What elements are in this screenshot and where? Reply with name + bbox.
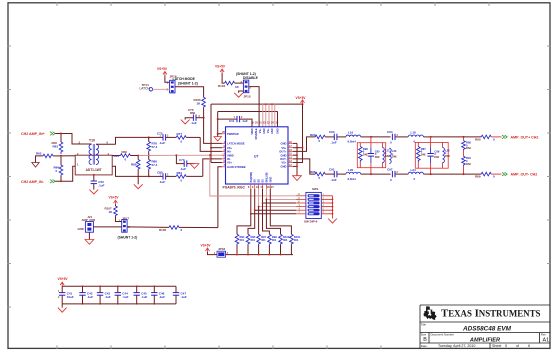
svg-text:C97: C97: [387, 167, 393, 171]
svg-text:LATCH MODE: LATCH MODE: [173, 77, 196, 81]
pin stubs right: [288, 143, 293, 166]
resistor R62: [36, 152, 62, 163]
capacitor C43: [97, 286, 111, 304]
inductor L18: [408, 131, 430, 144]
wire xfmr center tap: [112, 155, 120, 157]
svg-text:DNI: DNI: [385, 154, 390, 158]
svg-text:R93: R93: [310, 133, 316, 137]
svg-text:Document Number: Document Number: [431, 332, 455, 336]
jumper JP17: [119, 216, 131, 232]
resistor R104: [218, 73, 243, 89]
title block: [420, 305, 550, 348]
capacitor C45: [134, 286, 148, 304]
ground (JP15): [234, 93, 243, 97]
capacitor C95 DNI: [368, 153, 374, 155]
junctions VS+ rail: [265, 103, 267, 105]
junction PWRPAD: [217, 133, 219, 135]
ground (C77): [190, 164, 199, 169]
svg-text:GND: GND: [78, 227, 84, 231]
svg-text:301: 301: [283, 238, 288, 242]
wire AMP_IN-: [55, 166, 75, 181]
svg-text:C91: C91: [329, 167, 335, 171]
svg-text:301: 301: [294, 238, 299, 242]
node CH2_AMP_IN-: [21, 180, 55, 185]
junction sec mid: [148, 155, 150, 157]
power VS+5V (decoupling): [58, 277, 69, 286]
resistor R106: [194, 97, 206, 117]
capacitor C80 (bottom rail): [149, 171, 169, 184]
wire bottom rail to IN-: [203, 159, 222, 177]
resistor R86 to gnd: [131, 156, 140, 185]
svg-text:6.8nH: 6.8nH: [348, 177, 356, 181]
svg-text:301: 301: [272, 238, 277, 242]
junction out+ term: [463, 136, 465, 138]
wire xfmr sec top: [116, 137, 149, 144]
junction mid rail: [137, 155, 139, 157]
svg-text:GND: GND: [263, 128, 266, 134]
capacitor C75 DNI to gnd: [185, 108, 204, 125]
resistor R98 DNI: [359, 147, 363, 163]
svg-text:VS+5V: VS+5V: [58, 277, 69, 281]
wire decoupling bottom rail: [62, 303, 176, 305]
latch/disable jumpers: [140, 65, 307, 163]
junction out- filter2: [430, 173, 432, 175]
svg-text:B4(MSB): B4(MSB): [250, 172, 253, 183]
capacitor C98 DNI: [427, 153, 433, 155]
power VS+5V (cm jumper): [109, 196, 120, 205]
wire gain bit spare: [270, 189, 291, 234]
svg-text:10uF: 10uF: [67, 295, 74, 299]
wire out+ to R90: [464, 136, 482, 138]
capacitor C46: [151, 286, 165, 304]
resistor R92 term upper: [462, 137, 472, 156]
svg-text:DNI: DNI: [466, 162, 471, 166]
svg-text:6: 6: [528, 344, 530, 348]
testpoint TP14 LATCH: [140, 83, 170, 91]
capacitor C77 to gnd: [176, 155, 194, 171]
svg-text:LATCH: LATCH: [140, 87, 151, 91]
transformer T10: [75, 139, 115, 175]
svg-text:VS+5V: VS+5V: [109, 196, 120, 200]
svg-text:Tuesday, April 27, 2010: Tuesday, April 27, 2010: [438, 344, 475, 348]
svg-text:PGA870_RGC: PGA870_RGC: [223, 185, 246, 189]
ground (J21): [85, 240, 94, 245]
svg-text:AMP_OUT- CH2: AMP_OUT- CH2: [511, 173, 538, 177]
svg-text:VS+5V: VS+5V: [296, 96, 307, 100]
junction IN-: [60, 180, 62, 182]
svg-text:.1uF: .1uF: [159, 295, 165, 299]
svg-text:R77: R77: [177, 132, 183, 136]
resistor R63 (DNI): [52, 134, 63, 155]
ground (R86): [134, 184, 143, 188]
svg-text:R89: R89: [475, 175, 481, 179]
node AMP_OUT-: [502, 172, 537, 176]
capacitor C11: [218, 116, 252, 127]
ic section: [78, 104, 316, 244]
svg-text:VMID: VMID: [251, 128, 254, 134]
resistor R93 (out+ series): [310, 133, 334, 143]
svg-text:AMPLIFIER: AMPLIFIER: [469, 337, 500, 343]
svg-text:L16: L16: [348, 131, 354, 135]
svg-text:DNI: DNI: [434, 155, 439, 159]
svg-text:GND: GND: [277, 128, 280, 134]
svg-text:T10: T10: [89, 139, 95, 143]
wire out- to R89: [464, 173, 482, 175]
pin numbers left: [222, 131, 225, 167]
DNI shunt network 2: [415, 137, 450, 174]
ground (SW1): [328, 219, 337, 224]
svg-text:5: 5: [505, 344, 507, 348]
ground (PWRPAD): [214, 134, 222, 141]
resistor R64 (mid rail): [114, 150, 139, 162]
wire gain bit B1: [262, 189, 296, 234]
ground (xfmr center tap): [89, 190, 98, 194]
wire rail B right drop: [277, 112, 279, 127]
svg-text:.1uF: .1uF: [242, 119, 248, 123]
switch SW1: [296, 187, 325, 224]
junction out+ filter1: [370, 136, 372, 138]
junction rail B / C11: [217, 118, 219, 120]
capacitor C94: [387, 130, 408, 144]
svg-text:C77: C77: [179, 158, 185, 162]
input section: [21, 132, 226, 194]
svg-text:Rev: Rev: [541, 332, 547, 336]
svg-text:R84: R84: [177, 171, 183, 175]
svg-text:6.8nH: 6.8nH: [348, 140, 356, 144]
capacitor C41: [58, 286, 74, 304]
svg-text:VS+: VS+: [227, 146, 233, 150]
wire divider to xfmr pin2: [61, 155, 75, 157]
svg-text:VS+5V: VS+5V: [215, 65, 226, 69]
svg-text:.1uF: .1uF: [98, 184, 104, 188]
wire VS+ to pin6: [211, 162, 222, 164]
svg-text:GND: GND: [281, 164, 287, 168]
svg-text:U7: U7: [254, 155, 258, 159]
op-amp U7 PGA870: [222, 127, 293, 190]
inductor L23 DNI (left of net2): [389, 148, 397, 163]
wires VS+ rail to IC top pins: [263, 104, 275, 127]
capacitor C47: [173, 286, 187, 304]
svg-text:DNI: DNI: [363, 152, 368, 156]
power VS+5V (rail): [296, 96, 307, 105]
wire rail B left drop / PWRPAD feed: [218, 112, 222, 134]
svg-text:.1uF: .1uF: [87, 295, 93, 299]
wire xfmr sec bottom: [112, 166, 149, 176]
ground (IC right): [293, 176, 302, 181]
svg-text:R96: R96: [310, 170, 316, 174]
svg-text:IN-: IN-: [227, 157, 231, 161]
svg-text:301: 301: [240, 238, 245, 242]
connector J21 AMP_CM2: [78, 215, 122, 240]
wire GND right: [293, 143, 298, 175]
svg-text:DNI: DNI: [466, 146, 471, 150]
svg-text:301: 301: [261, 238, 266, 242]
svg-text:R105: R105: [159, 228, 167, 232]
jumper JP18: [214, 247, 229, 257]
resistor R77 (top rail): [166, 132, 201, 143]
output section: [310, 130, 538, 182]
wire OUT-: [293, 159, 315, 174]
svg-text:DNI: DNI: [122, 150, 127, 154]
svg-text:57.4: 57.4: [152, 163, 158, 167]
wire OUT+: [293, 137, 315, 152]
svg-text:TEXAS INSTRUMENTS: TEXAS INSTRUMENTS: [441, 307, 541, 319]
svg-text:DNI: DNI: [375, 155, 380, 159]
svg-text:VS+: VS+: [259, 128, 262, 133]
TI logo: [424, 306, 437, 320]
pin stubs bottom: [251, 184, 270, 189]
ground (decoupling): [58, 304, 67, 312]
resistor R105: [127, 226, 218, 232]
wire VMID rail: [176, 154, 225, 156]
svg-text:JP18: JP18: [218, 247, 225, 251]
power VS+5V (jp18): [201, 244, 218, 255]
pin stubs left: [222, 134, 226, 167]
svg-text:B: B: [423, 337, 427, 343]
svg-text:A1: A1: [543, 338, 550, 344]
svg-text:R62: R62: [36, 152, 42, 156]
svg-text:Size: Size: [421, 332, 427, 336]
DNI shunt network 1: [357, 137, 390, 174]
resistor R76: [147, 137, 158, 155]
svg-text:of: of: [516, 344, 519, 348]
wire out+ filter2: [431, 136, 464, 138]
svg-text:GND: GND: [281, 153, 287, 157]
svg-text:PWRPAD: PWRPAD: [227, 132, 239, 136]
wire LATCH net to IC: [204, 118, 222, 144]
wire out- filter1: [371, 173, 391, 175]
svg-text:OUT-: OUT-: [280, 157, 287, 161]
resistor R91 term lower: [462, 156, 472, 174]
svg-text:CH2 AMP_IN-: CH2 AMP_IN-: [21, 180, 45, 184]
svg-text:57.4: 57.4: [152, 145, 158, 149]
svg-text:VS+5V: VS+5V: [201, 244, 212, 248]
svg-text:.1uF: .1uF: [180, 167, 186, 171]
inductor L16: [346, 131, 371, 144]
svg-text:SW1: SW1: [312, 187, 319, 191]
svg-text:R63: R63: [53, 145, 59, 149]
resistor R96 (out- series): [310, 170, 334, 180]
junction sec bot: [148, 175, 150, 177]
svg-text:SW DIP-6: SW DIP-6: [304, 220, 318, 224]
svg-text:JP15: JP15: [244, 95, 251, 99]
resistor R95: [246, 234, 256, 254]
power VS+5V (latch): [157, 67, 168, 76]
svg-text:R64: R64: [114, 154, 120, 158]
pin numbers right: [289, 141, 292, 167]
wire JP16 pin2 to R106: [175, 87, 204, 98]
svg-text:DNI: DNI: [421, 152, 426, 156]
capacitor C93: [329, 130, 346, 144]
bottom section: [58, 154, 337, 312]
svg-text:VS+: VS+: [267, 128, 270, 133]
capacitor C44: [115, 286, 129, 304]
svg-text:C93: C93: [329, 130, 335, 134]
junction out- term: [463, 173, 465, 175]
power VS+5V (disable): [215, 65, 226, 74]
svg-text:ADS58C48 EVM: ADS58C48 EVM: [462, 326, 512, 333]
resistor R100: [279, 234, 290, 254]
capacitor C72 (top rail): [149, 132, 169, 145]
wire GAIN STROBE: [218, 167, 222, 228]
svg-text:ADT1-1WT: ADT1-1WT: [86, 168, 102, 172]
capacitor C42: [79, 286, 93, 304]
junction divider mid: [60, 155, 62, 157]
ground (input divider): [32, 163, 39, 168]
wires SW1 to gnd: [321, 196, 332, 219]
svg-text:R86: R86: [131, 163, 137, 167]
svg-text:R104: R104: [218, 84, 226, 88]
svg-text:DNI: DNI: [445, 154, 450, 158]
svg-text:Sheet: Sheet: [492, 344, 501, 348]
inductor L22 DNI: [443, 148, 445, 163]
svg-text:OUT+: OUT+: [279, 150, 287, 154]
svg-text:IN+: IN+: [227, 150, 232, 154]
svg-text:.1uF: .1uF: [141, 295, 147, 299]
resistor R107: [105, 204, 122, 221]
pull-up resistors R94-R99: [235, 234, 301, 254]
resistor R97: [257, 234, 267, 254]
wire gain bit B2: [258, 189, 296, 234]
svg-text:DISABLE: DISABLE: [255, 128, 258, 139]
wire VMID to SW1 row1: [209, 154, 296, 196]
wire DISABLE net: [249, 87, 259, 127]
resistor R94: [235, 234, 245, 254]
junction IN+: [60, 133, 62, 135]
svg-text:B0(LSB): B0(LSB): [265, 172, 268, 182]
ground (C75): [181, 120, 190, 124]
svg-text:C94: C94: [387, 130, 393, 134]
junction sec top: [148, 136, 150, 138]
svg-text:.1uF: .1uF: [159, 141, 165, 145]
svg-text:L18: L18: [411, 131, 417, 135]
svg-text:L24: L24: [411, 168, 417, 172]
svg-text:.1uF: .1uF: [181, 295, 187, 299]
inductor L20: [346, 168, 371, 181]
wire gain bit B0: [266, 189, 297, 234]
wire rail B: [218, 111, 278, 113]
svg-text:.1uF: .1uF: [331, 141, 337, 145]
wire top rail to IN+: [200, 137, 222, 151]
node AMP_OUT+: [502, 135, 538, 139]
wire decoupling top rail: [62, 285, 176, 287]
junction out+ filter2: [430, 136, 432, 138]
capacitor C91: [329, 167, 346, 181]
wire out- filter2: [431, 173, 464, 175]
jumper JP15: [240, 80, 251, 99]
svg-text:C11: C11: [229, 119, 235, 123]
wire VS+ rail A left drop: [210, 104, 212, 162]
svg-text:Date:: Date:: [421, 344, 428, 348]
svg-text:VS+: VS+: [281, 161, 287, 165]
svg-text:VS+: VS+: [281, 146, 287, 150]
svg-text:R90: R90: [475, 137, 481, 141]
svg-text:(SHUNT 1-2): (SHUNT 1-2): [178, 82, 198, 86]
wire gain bit B3: [248, 189, 296, 234]
wire VS+ rail A: [211, 103, 303, 105]
svg-text:Title: Title: [421, 323, 427, 327]
resistor R101: [290, 234, 301, 254]
wire VS+ right: [293, 104, 304, 162]
inductor L24: [408, 168, 430, 181]
junction out- filter1: [370, 173, 372, 175]
svg-text:301: 301: [251, 238, 256, 242]
svg-text:LATCH MODE: LATCH MODE: [227, 142, 245, 146]
svg-text:C75: C75: [188, 108, 194, 112]
svg-text:VS+5V: VS+5V: [157, 67, 168, 71]
svg-text:(SHUNT 1-2): (SHUNT 1-2): [118, 236, 138, 240]
junction VS+ left upper: [210, 147, 212, 149]
svg-text:.1uF: .1uF: [331, 178, 337, 182]
svg-text:VS+: VS+: [227, 161, 233, 165]
svg-text:.1uF: .1uF: [191, 121, 197, 125]
wire VS+ to pin2: [211, 147, 222, 149]
svg-text:DISABLE: DISABLE: [243, 76, 259, 80]
resistor R84 (bottom rail): [166, 171, 203, 182]
svg-text:CH2 AMP_IN+: CH2 AMP_IN+: [21, 132, 45, 136]
wire JP15 pin3 to gnd: [239, 91, 244, 93]
wire gain bit B4: [237, 189, 296, 234]
resistor R99: [268, 234, 278, 254]
wire VS+ to JP16 pin1: [165, 76, 170, 83]
wire out+ filter1: [371, 136, 391, 138]
resistor R66: [54, 157, 63, 181]
svg-text:GAIN STROBE: GAIN STROBE: [227, 165, 246, 169]
svg-text:GND: GND: [269, 177, 272, 183]
resistor R89 out-: [475, 172, 502, 178]
node CH2_AMP_IN+: [21, 132, 55, 136]
svg-text:.1uF: .1uF: [159, 180, 165, 184]
pin numbers IC top: [251, 122, 279, 125]
svg-text:AMP_OUT+ CH2: AMP_OUT+ CH2: [511, 135, 539, 139]
svg-text:.1uF: .1uF: [105, 295, 111, 299]
capacitor C97: [387, 167, 408, 181]
svg-text:GND: GND: [271, 128, 274, 134]
jumper JP16: [167, 75, 177, 93]
svg-text:L20: L20: [348, 168, 354, 172]
svg-text:.1uF: .1uF: [122, 295, 128, 299]
resistor R87 DNI: [417, 147, 421, 163]
resistor R80: [147, 156, 158, 177]
resistor R90 out+: [475, 135, 502, 141]
svg-text:GND: GND: [281, 142, 287, 146]
svg-text:VMID: VMID: [227, 153, 234, 157]
svg-text:DNI: DNI: [392, 155, 397, 159]
wire mid rail: [138, 154, 176, 156]
wire AMP_IN+: [55, 134, 91, 145]
inductor L17 DNI: [382, 148, 384, 163]
capacitor C50: [91, 174, 105, 190]
wire pull-up rail: [226, 254, 293, 256]
junction VMID tap: [175, 154, 177, 156]
